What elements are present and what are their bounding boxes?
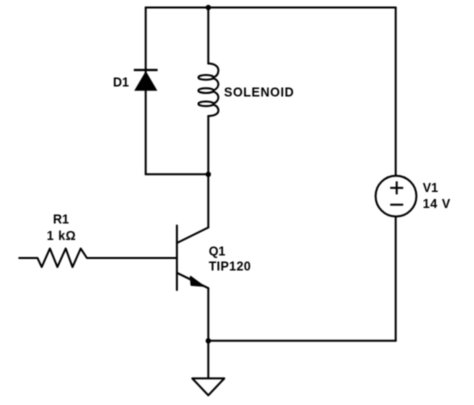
transistor Q1 emitter slant — [177, 273, 208, 288]
ground symbol — [192, 378, 224, 395]
wire emitter vertical — [207, 288, 209, 341]
wire left branch (diode branch) — [145, 8, 147, 175]
wire horizontal connector diode-bottom to middle rail — [146, 173, 209, 175]
wire ground stem — [207, 341, 209, 379]
svg-text:V1: V1 — [423, 181, 438, 195]
wire right branch upper — [395, 8, 397, 176]
svg-text:SOLENOID: SOLENOID — [224, 86, 294, 100]
node junction dot top — [206, 5, 211, 10]
svg-text:TIP120: TIP120 — [209, 259, 251, 273]
svg-text:D1: D1 — [113, 76, 129, 90]
voltage source V1 plus sign — [390, 181, 403, 194]
inductor L1 SOLENOID coil — [198, 64, 218, 117]
svg-text:14 V: 14 V — [423, 197, 451, 211]
resistor R1 zigzag with leads — [19, 249, 176, 268]
svg-text:R1: R1 — [53, 213, 69, 227]
diode D1 cathode bar — [134, 69, 158, 71]
wire middle rail top (to solenoid) — [207, 8, 209, 64]
voltage source V1 circle — [376, 176, 417, 217]
node junction dot middle (diode/solenoid) — [206, 172, 211, 177]
transistor Q1 base bar — [176, 226, 178, 291]
wire right branch lower — [395, 217, 397, 341]
transistor Q1 emitter arrowhead — [191, 277, 204, 286]
wire top rail — [146, 7, 396, 9]
transistor Q1 collector slant — [177, 228, 208, 244]
node junction dot bottom — [206, 338, 211, 343]
svg-text:Q1: Q1 — [209, 244, 226, 258]
wire bottom rail — [208, 340, 395, 342]
wire middle rail (solenoid bottom through junction to collector) — [207, 116, 209, 228]
svg-text:1 kΩ: 1 kΩ — [47, 229, 76, 243]
voltage source V1 minus sign — [390, 204, 403, 206]
diode D1 triangle — [135, 72, 156, 90]
